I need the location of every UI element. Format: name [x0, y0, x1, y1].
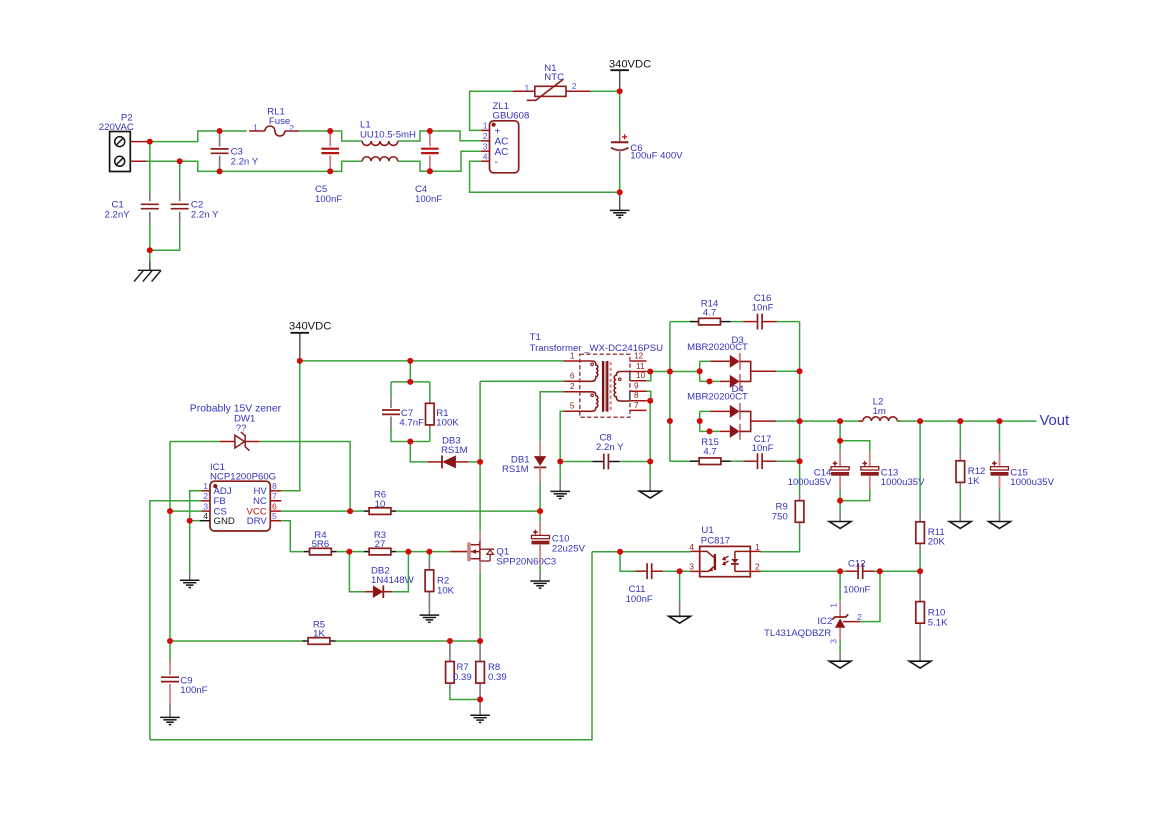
svg-text:100nF: 100nF [626, 594, 653, 605]
wire D4 top anode [700, 410, 711, 412]
capacitor C16 leads [744, 321, 758, 323]
wire R1 top [429, 382, 431, 399]
svg-text:7: 7 [272, 491, 277, 501]
inductor L1 bottom winding [362, 157, 398, 161]
svg-text:2: 2 [203, 491, 208, 501]
resistor R3 27 [369, 548, 391, 555]
svg-text:1K: 1K [313, 629, 325, 640]
IC1 pin leads right [270, 490, 281, 492]
junction output / cathode vertical [797, 418, 803, 424]
wire C2 top [179, 161, 181, 191]
resistor R3 leads [364, 551, 370, 553]
svg-text:10nF: 10nF [752, 443, 774, 454]
svg-text:7: 7 [634, 400, 639, 410]
Q1 bulk arrow [471, 549, 476, 554]
diode DB3 RS1M [428, 461, 442, 463]
ground stem [539, 571, 541, 581]
junction FB feed / C11 [617, 549, 623, 555]
wire 340VDC rail to T1 pin1 [300, 360, 564, 362]
wire ADJ to GND tie [190, 491, 202, 521]
wire R1 bottom [429, 429, 431, 441]
junction anode vertical top [667, 369, 673, 375]
wire 340VDC to IC1 HV [281, 361, 300, 491]
wire C8 to secondary return [620, 461, 651, 463]
svg-text:2: 2 [570, 381, 575, 391]
resistor R9 750 [795, 501, 804, 523]
svg-text:220VAC: 220VAC [99, 122, 134, 133]
svg-text:8: 8 [634, 390, 639, 400]
svg-text:5: 5 [570, 401, 575, 411]
junction CS line [167, 508, 173, 514]
wire to C9 [169, 641, 171, 661]
svg-text:2: 2 [483, 131, 488, 141]
wire CS to R5 [170, 640, 302, 642]
resistor R12 leads [959, 451, 961, 461]
ground (IC1) [180, 579, 200, 581]
svg-text:T1: T1 [530, 332, 541, 343]
capacitor C14 leads [839, 451, 841, 467]
junction gate R2 [426, 549, 432, 555]
svg-text:100nF: 100nF [843, 585, 870, 596]
resistor R2 10K [425, 570, 434, 592]
wire DB3 to drain node [468, 461, 480, 463]
junction 340VDC rail [297, 358, 303, 364]
wire C7 top [390, 382, 392, 398]
wire ZL1 pin4 to C6 ground node [470, 161, 620, 192]
svg-text:10: 10 [375, 499, 386, 510]
resistor R4 5R6 [310, 548, 332, 555]
wire D4 cathode out [776, 420, 800, 422]
svg-text:1: 1 [483, 121, 488, 131]
svg-text:5: 5 [272, 511, 277, 521]
svg-text:6: 6 [570, 371, 575, 381]
ground stem [649, 481, 651, 491]
wire C2 to C1 join [150, 223, 180, 250]
wire T1 pin9 tie down [647, 391, 651, 401]
wire L1 to ZL1 pin2 [398, 131, 481, 141]
resistor R1 leads [429, 399, 431, 403]
junction C3 top [217, 128, 223, 134]
wire secondary to D3 anodes [670, 371, 700, 373]
wire C14 top [839, 441, 841, 451]
power flag 340VDC (top) [619, 70, 621, 91]
junction C12 right / ref [877, 568, 883, 574]
svg-text:3: 3 [483, 141, 488, 151]
wire IC2 anode to ground [839, 641, 841, 652]
wire Q1 source down [479, 571, 481, 641]
inductor L1 top winding [362, 141, 398, 145]
svg-text:PC817: PC817 [701, 536, 730, 547]
wire P2 line to fuse [147, 131, 247, 142]
capacitor C17 10nF [757, 453, 759, 469]
ground (C9) [160, 716, 180, 718]
thermistor N1 NTC [535, 86, 566, 96]
wire rail to C14 [839, 421, 841, 441]
svg-text:4: 4 [203, 511, 208, 521]
svg-text:100K: 100K [436, 418, 459, 429]
svg-text:1: 1 [570, 350, 575, 360]
junction snubber bottom [407, 439, 413, 445]
wire rail to snubber top [409, 361, 411, 382]
svg-text:2: 2 [857, 612, 862, 622]
wire D4 anode split [699, 411, 701, 431]
wire IC2 ref to C12 right [860, 571, 880, 621]
capacitor C7 4.7nF [382, 409, 400, 411]
wire R9 to U1 pin1 [761, 528, 800, 552]
svg-text:2.2n Y: 2.2n Y [596, 442, 624, 453]
wire R12 to ground [959, 488, 961, 513]
svg-text:DRV: DRV [247, 516, 268, 527]
junction C14 C13 top [837, 438, 843, 444]
wire C14 to ground [839, 501, 841, 513]
wire D3 bottom anode [700, 380, 720, 382]
svg-text:10K: 10K [437, 585, 455, 596]
wire T1 pin8 down to C8 [647, 401, 651, 462]
svg-text:4.7: 4.7 [703, 446, 716, 457]
connector P2 220VAC [110, 132, 131, 172]
svg-text:4.7nF: 4.7nF [399, 418, 424, 429]
capacitor C4 leads [429, 131, 431, 146]
junction rail / C15 [997, 418, 1003, 424]
wire U1 pin2 to C12 [761, 570, 847, 572]
junction anode vertical bottom [667, 418, 673, 424]
svg-text:5R6: 5R6 [312, 539, 330, 550]
svg-text:GND: GND [214, 516, 235, 527]
T1 aux winding pins 2-5 [581, 392, 598, 412]
svg-text:4.7: 4.7 [703, 308, 716, 319]
svg-text:4: 4 [689, 542, 694, 552]
svg-text:2.2nY: 2.2nY [105, 210, 131, 221]
controller IC1 NCP1200P60G [210, 481, 270, 531]
svg-text:Fuse: Fuse [269, 116, 290, 127]
resistor R7 0.39 [446, 662, 455, 684]
svg-text:2.2n Y: 2.2n Y [231, 156, 259, 167]
junction P2 line / C1 [147, 139, 153, 145]
svg-text:750: 750 [772, 511, 788, 522]
earth ground symbol [149, 261, 151, 270]
junction R4 R3 DB2 [346, 549, 352, 555]
svg-text:2: 2 [572, 81, 577, 91]
T1 core [602, 361, 604, 412]
capacitor C11 leads [636, 570, 648, 572]
wire VCC node to C10 [539, 511, 541, 521]
IC1 NC stub [270, 500, 281, 502]
junction R7 R8 bottom [477, 697, 483, 703]
MOSFET Q1 SPP20N60C3 [450, 551, 467, 553]
svg-text:3: 3 [203, 501, 208, 511]
ground (R8) [470, 714, 490, 716]
wire ZL1 pin1 to N1 [470, 91, 513, 130]
junction primary gnd / C8 [557, 459, 563, 465]
wire C1 to earth [149, 223, 151, 261]
wire C6 to ground [619, 159, 621, 193]
svg-text:10nF: 10nF [752, 303, 774, 314]
capacitor C8 leads [593, 461, 604, 463]
svg-text:AC: AC [495, 137, 509, 148]
U1 pin leads [691, 550, 700, 552]
svg-text:12: 12 [634, 350, 644, 360]
resistor R1 100K [426, 403, 435, 425]
wire C3 to L1 bottom [247, 161, 362, 171]
svg-text:0.39: 0.39 [488, 672, 507, 683]
wire C11 to U1 pin3 [663, 570, 690, 572]
wire C13 bottom tie [840, 490, 870, 501]
wire rail to R11 [919, 421, 921, 512]
wire R7 bottom tie [450, 690, 480, 700]
ground stem [839, 651, 841, 661]
junction D4 lower anode [707, 428, 713, 434]
svg-text:340VDC: 340VDC [289, 320, 331, 332]
resistor R2 leads [428, 560, 430, 570]
junction snubber top [407, 379, 413, 385]
capacitor C15 leads [999, 452, 1001, 467]
resistor R10 leads [919, 571, 921, 601]
svg-text:MBR20200CT: MBR20200CT [687, 342, 748, 353]
resistor R5 1K [308, 638, 330, 645]
svg-text:NTC: NTC [544, 72, 564, 83]
junction rail / R12 [957, 418, 963, 424]
IC1 pin leads left [202, 490, 211, 492]
svg-text:100nF: 100nF [415, 194, 442, 205]
U1 LED [734, 551, 736, 559]
wire secondary return to ground [649, 462, 651, 481]
resistor R11 20K [916, 522, 925, 544]
Q1 body diode [480, 548, 486, 550]
resistor R15 4.7 [699, 458, 721, 465]
junction pins 9-8 [647, 398, 653, 404]
wire R5 to sense node [336, 640, 481, 642]
wire C1 top [149, 142, 151, 192]
junction rail / C14 [837, 418, 843, 424]
junction D3 lower anode [707, 378, 713, 384]
T1 secondary phase dot [619, 378, 622, 381]
IC2 ref lead [843, 621, 860, 623]
wire T1 pin5 down [560, 411, 563, 461]
capacitor C9 100nF [161, 676, 179, 678]
wire T1 pin6 to Q1 drain [479, 381, 481, 531]
svg-text:1: 1 [829, 603, 839, 608]
ground stem [959, 512, 961, 521]
wire C15 to ground [999, 488, 1001, 513]
T1 winding tie pins 11-10 [629, 372, 631, 381]
svg-text:MBR20200CT: MBR20200CT [687, 392, 748, 403]
junction R3 DB2 [405, 549, 411, 555]
thermistor N1 leads [513, 90, 535, 92]
T1 primary winding pins 1-6 [581, 361, 598, 381]
junction C14 C13 bottom [837, 498, 843, 504]
svg-text:+: + [495, 126, 501, 137]
capacitor C6 100uF 400V [619, 132, 621, 141]
svg-text:1: 1 [525, 83, 530, 93]
junction 340VDC node [617, 88, 623, 94]
inductor L2 1m [859, 420, 863, 422]
wire C11 node to ground [679, 571, 681, 602]
ground stem [559, 462, 561, 482]
svg-text:1000u35V: 1000u35V [1010, 477, 1054, 488]
wire snubber anode vertical [669, 322, 671, 462]
resistor R5 leads [302, 640, 308, 642]
ground GNDREF (secondary, C8 right) [639, 491, 661, 498]
svg-text:27: 27 [375, 539, 386, 550]
ground stem [919, 651, 921, 661]
capacitor C7 leads [390, 398, 392, 408]
junction divider node [917, 568, 923, 574]
wire P2 neutral [147, 161, 247, 171]
wire T1 pin11 out [647, 371, 671, 373]
svg-text:U1: U1 [701, 525, 713, 536]
capacitor C4 100nF [421, 148, 439, 150]
svg-text:1000u35V: 1000u35V [881, 477, 925, 488]
capacitor C13 leads [869, 451, 871, 467]
ground (C10) [530, 580, 550, 582]
wire DW1 anode / CS vertical [169, 442, 171, 642]
diode DB1 RS1M [539, 441, 541, 456]
svg-text:100nF: 100nF [180, 685, 207, 696]
wire R6 to VCC node [396, 510, 540, 512]
svg-text:100uF 400V: 100uF 400V [630, 151, 683, 162]
wire D3 anode split [699, 361, 701, 381]
wire D4 bottom anode [700, 430, 720, 432]
junction C3 bottom [217, 168, 223, 174]
ground GNDREF (C15) [989, 522, 1011, 529]
wire down to C11 [620, 552, 635, 571]
capacitor C12 100nF [857, 563, 859, 579]
resistor R10 5.1K [916, 602, 925, 624]
ground GNDREF (C11) [669, 616, 691, 623]
capacitor C3 leads [219, 131, 221, 147]
resistor R8 0.39 [476, 662, 485, 684]
svg-text:3: 3 [689, 561, 694, 571]
junction ADJ GND tie [187, 518, 193, 524]
svg-text:C12: C12 [848, 558, 866, 569]
capacitor C17 leads [744, 460, 758, 462]
diode DB2 1N4148W [365, 591, 373, 593]
svg-text:1m: 1m [873, 406, 886, 417]
svg-text:0.39: 0.39 [453, 672, 472, 683]
wire GND to ground [189, 521, 191, 571]
capacitor C12 leads [846, 570, 858, 572]
resistor R6 10 [369, 508, 391, 515]
capacitor C1 2.2nY [141, 203, 159, 205]
resistor R4 leads [304, 551, 310, 553]
wire snubber top tie [391, 381, 430, 383]
wire R4 to R3 [337, 551, 364, 553]
resistor R9 leads [799, 496, 801, 501]
wire R15 to C17 [731, 460, 744, 462]
T1 pin stubs right [630, 360, 647, 362]
ground (C6) [610, 209, 630, 211]
svg-text:NCP1200P60G: NCP1200P60G [210, 472, 276, 483]
junction DW1 / VCC [347, 508, 353, 514]
wire D3 cathode out [776, 370, 800, 372]
svg-text:2: 2 [289, 123, 294, 133]
junction VCC node [537, 508, 543, 514]
capacitor C16 10nF [757, 314, 759, 330]
svg-text:TL431AQDBZR: TL431AQDBZR [764, 628, 831, 639]
ground stem [428, 605, 430, 615]
capacitor C9 leads [169, 661, 171, 675]
junction C4 bottom [427, 168, 433, 174]
junction D4 anodes [697, 418, 703, 424]
power label 340VDC top [610, 69, 629, 71]
D4 cathode join [740, 411, 751, 431]
resistor R8 leads [479, 641, 481, 662]
junction DB3 / drain [477, 459, 483, 465]
resistor R14 4.7 [699, 318, 721, 325]
T1 secondary winding pins 11/10 - 9/8 [614, 372, 630, 402]
svg-text:RS1M: RS1M [441, 445, 468, 456]
svg-text:IC2: IC2 [817, 616, 832, 627]
junction R5 R7 [447, 638, 453, 644]
ground stem [839, 512, 841, 521]
wire fuse to L1 [299, 131, 362, 141]
T1 pin stubs left [564, 360, 581, 362]
wire C12 to divider node [875, 570, 921, 572]
capacitor C11 100nF [646, 563, 648, 579]
svg-text:20K: 20K [928, 537, 946, 548]
ground (R2) [420, 614, 440, 616]
junction C8 / secondary return [647, 459, 653, 465]
ground GNDREF (C14 C13) [829, 522, 851, 529]
wire C17 to cathode vertical [777, 460, 800, 462]
wire T1 pin10 tie up [647, 372, 651, 381]
wire to DB2 [349, 552, 365, 592]
svg-text:1000u35V: 1000u35V [788, 477, 832, 488]
wire to R2 [428, 552, 430, 560]
wire output rail left [800, 420, 863, 422]
junction C17 / cathode vertical [797, 458, 803, 464]
capacitor C10 plates [532, 535, 550, 538]
resistor R11 leads [919, 512, 921, 522]
junction C6 ground node [617, 189, 623, 195]
ground stem [169, 703, 171, 717]
svg-text:RS1M: RS1M [502, 464, 529, 475]
ground stem [999, 512, 1001, 521]
shunt regulator IC2 TL431 [839, 601, 841, 617]
capacitor C14 1000u35V [831, 467, 849, 470]
ground stem [479, 700, 481, 716]
svg-text:100nF: 100nF [315, 194, 342, 205]
T1 winding tie pins 9-8 [629, 391, 631, 401]
wire R11 to C12 node [919, 549, 921, 571]
capacitor C8 2.2n Y [603, 454, 605, 470]
svg-text:6: 6 [272, 501, 277, 511]
ground (C8 left) [550, 490, 570, 492]
wire to R15 [670, 460, 690, 462]
junction C4 top [427, 128, 433, 134]
wire FB vertical [150, 501, 202, 740]
junction rail / snubber [407, 358, 413, 364]
U1 phototransistor [700, 551, 714, 557]
ground stem [189, 571, 191, 581]
wire C10 to ground [539, 565, 541, 571]
D3 cathode join [740, 361, 751, 381]
junction D3 cathode [797, 368, 803, 374]
ground stem [619, 192, 621, 210]
T1 aux phase dot [591, 394, 594, 397]
wire VCC to R6 [281, 510, 364, 512]
svg-text:1: 1 [203, 481, 208, 491]
ground GNDREF (R10) [909, 661, 931, 668]
svg-text:-: - [495, 157, 498, 168]
junction pins 11-10 [647, 369, 653, 375]
svg-text:1: 1 [755, 542, 760, 552]
resistor R12 1K [956, 461, 965, 483]
junction C5 top [327, 128, 333, 134]
ground stem [679, 602, 681, 616]
wire cathode vertical to R9 [799, 322, 801, 496]
junction D3 anodes [697, 368, 703, 374]
